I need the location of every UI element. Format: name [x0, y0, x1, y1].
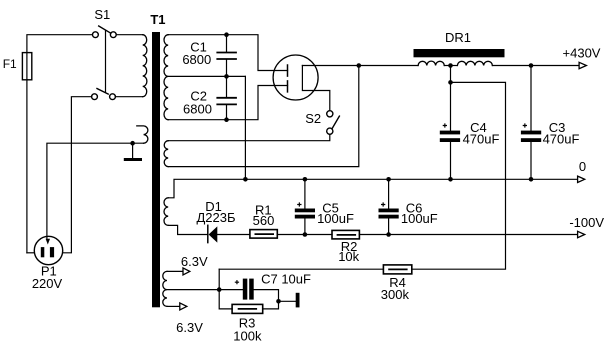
svg-text:C7 10uF: C7 10uF: [261, 272, 311, 287]
svg-text:Д223Б: Д223Б: [196, 210, 235, 225]
svg-text:6.3V: 6.3V: [176, 320, 203, 335]
svg-text:10k: 10k: [338, 249, 359, 264]
svg-text:T1: T1: [150, 12, 165, 27]
svg-text:+430V: +430V: [563, 45, 601, 60]
svg-text:100uF: 100uF: [317, 211, 354, 226]
svg-text:300k: 300k: [381, 287, 410, 302]
svg-text:6800: 6800: [183, 101, 212, 116]
svg-text:100uF: 100uF: [401, 211, 438, 226]
svg-text:DR1: DR1: [445, 30, 471, 45]
svg-text:560: 560: [253, 213, 275, 228]
svg-text:6800: 6800: [182, 52, 211, 67]
svg-text:100k: 100k: [233, 329, 262, 344]
svg-text:S2: S2: [305, 111, 321, 126]
svg-text:220V: 220V: [32, 276, 63, 291]
svg-text:6.3V: 6.3V: [181, 254, 208, 269]
svg-text:0: 0: [579, 159, 586, 174]
svg-text:470uF: 470uF: [463, 131, 500, 146]
svg-text:F1: F1: [3, 57, 17, 71]
svg-text:S1: S1: [94, 7, 110, 22]
svg-text:470uF: 470uF: [543, 131, 580, 146]
svg-text:-100V: -100V: [569, 215, 604, 230]
